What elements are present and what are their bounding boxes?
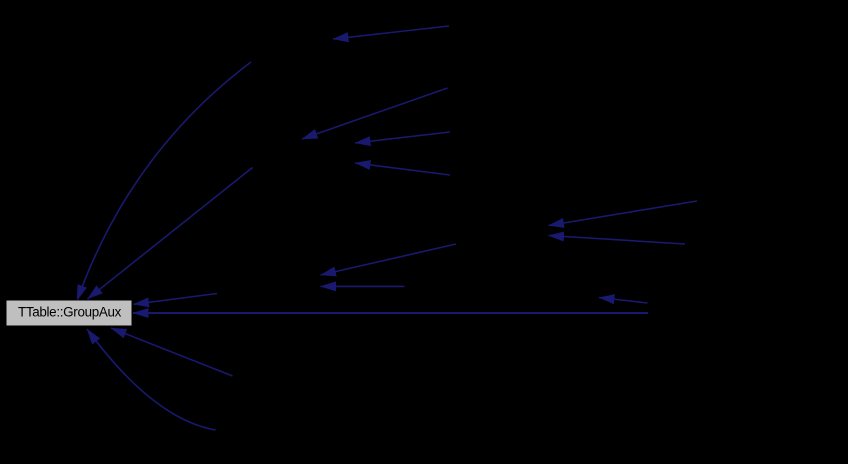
wire edge B to box top	[88, 168, 253, 300]
wire edge M	[599, 298, 648, 304]
wire edge G top	[333, 26, 449, 39]
wire edge D long horizontal to box right	[133, 312, 648, 314]
wire edge J	[355, 163, 450, 175]
wire edge H	[302, 88, 448, 139]
wire edge N short horizontal	[321, 285, 405, 287]
wire edge A curve top-left to box top	[77, 62, 251, 301]
wire edge K	[549, 201, 698, 226]
node TTable::GroupAux	[6, 300, 132, 326]
wire edge I	[355, 132, 450, 143]
wire edge C1 to box right upper	[134, 294, 218, 305]
wire edge E curve to box bottom	[87, 329, 216, 430]
wire edge L	[549, 236, 686, 245]
wire edge C2	[321, 244, 457, 275]
wire edge F to box bottom	[111, 328, 233, 376]
svg-text:TTable::GroupAux: TTable::GroupAux	[18, 304, 122, 319]
